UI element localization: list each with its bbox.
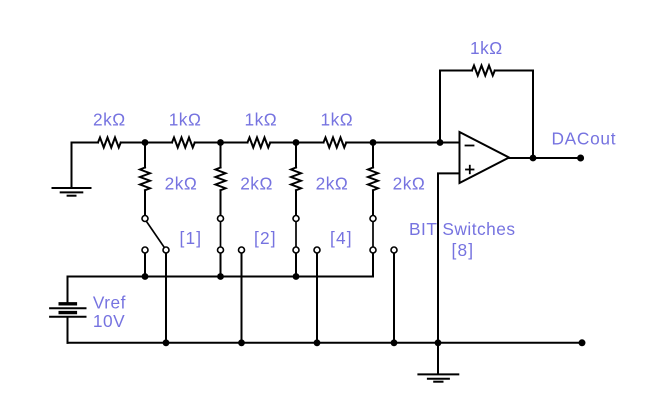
wire battery bottom lead <box>67 318 69 343</box>
node op-amp minus input <box>437 139 444 146</box>
switch SW1 blade (thrown right) <box>147 222 165 248</box>
svg-text:1kΩ: 1kΩ <box>169 110 202 130</box>
svg-text:BIT Switches: BIT Switches <box>409 219 516 239</box>
svg-text:1kΩ: 1kΩ <box>470 38 503 58</box>
node bit3 top <box>293 139 300 146</box>
wire bit4 vertical top <box>372 143 374 168</box>
wire feedback right vertical <box>532 71 534 159</box>
node vref bus bit2 <box>217 273 224 280</box>
node bit4 top <box>370 139 377 146</box>
node ground bus sw1 <box>163 339 170 346</box>
node ground bus sw4 <box>391 339 398 346</box>
switch SW3 terminal top <box>293 216 299 222</box>
wire vref bus <box>68 276 374 278</box>
svg-text:2kΩ: 2kΩ <box>93 110 126 130</box>
node ground bus opamp plus <box>435 339 442 346</box>
switch SW1 terminal top <box>142 216 148 222</box>
wire bit3 right terminal down to ground bus <box>316 253 318 343</box>
switch SW4 blade <box>372 222 374 247</box>
svg-text:[4]: [4] <box>330 228 353 248</box>
svg-text:10V: 10V <box>93 311 125 331</box>
wire op-amp plus input <box>438 173 460 374</box>
svg-text:1kΩ: 1kΩ <box>245 110 278 130</box>
resistor R2 1kOhm horizontal <box>172 138 195 148</box>
node DACout terminal <box>577 155 584 162</box>
wire rail seg <box>121 142 172 144</box>
wire feedback top left seg <box>440 70 472 72</box>
wire bit2 right terminal down to ground bus <box>241 253 243 343</box>
resistor R9 1kOhm feedback <box>472 66 495 76</box>
switch SW3 blade <box>295 222 297 247</box>
ground GND1 <box>53 188 91 196</box>
node bit1 top <box>142 139 149 146</box>
svg-text:2kΩ: 2kΩ <box>240 174 273 194</box>
node vref bus bit1 <box>142 273 149 280</box>
wire bit4 left terminal down to vref bus <box>372 253 374 276</box>
wire bit3 vertical top <box>295 143 297 168</box>
svg-text:[2]: [2] <box>254 228 277 248</box>
wire bit1 vertical top <box>144 143 146 168</box>
wire top rail segment left <box>72 142 99 144</box>
wire bit2 to switch <box>220 190 222 215</box>
resistor R5 2kOhm vertical bit1 <box>140 168 150 191</box>
wire rail seg <box>270 142 323 144</box>
svg-text:Vref: Vref <box>93 293 126 313</box>
wire bit1 to switch <box>144 190 146 215</box>
svg-text:2kΩ: 2kΩ <box>316 174 349 194</box>
wire bit1 right terminal down to ground bus <box>165 253 167 343</box>
resistor R1 2kOhm horizontal <box>98 138 121 148</box>
wire top-left vertical to ground <box>71 143 73 188</box>
svg-text:DACout: DACout <box>552 129 617 149</box>
switch SW4 terminal right <box>391 247 397 253</box>
switch SW2 terminal right <box>239 247 245 253</box>
wire bit2 vertical top <box>220 143 222 168</box>
switch SW2 blade <box>220 222 222 247</box>
node output junction <box>530 155 537 162</box>
wire rail seg <box>195 142 248 144</box>
svg-text:[8]: [8] <box>452 240 475 260</box>
switch SW3 terminal left <box>293 247 299 253</box>
switch SW1 terminal left <box>142 247 148 253</box>
node ground bus sw3 <box>314 339 321 346</box>
ground GND2 <box>418 374 458 381</box>
svg-text:[1]: [1] <box>180 228 203 248</box>
wire bit1 left terminal down to vref bus <box>144 253 146 276</box>
wire bit3 left terminal down to vref bus <box>295 253 297 276</box>
switch SW2 terminal top <box>218 216 224 222</box>
switch SW4 terminal left <box>370 247 376 253</box>
switch SW4 terminal top <box>370 216 376 222</box>
resistor R3 1kOhm horizontal <box>248 138 271 148</box>
wire ground bus <box>68 342 583 344</box>
resistor R8 2kOhm vertical bit4 <box>368 168 378 191</box>
wire feedback top right seg <box>495 70 533 72</box>
op-amp U1 <box>460 132 510 183</box>
battery Vref plates <box>50 304 85 317</box>
svg-text:1kΩ: 1kΩ <box>321 110 354 130</box>
node vref bus bit3 <box>293 273 300 280</box>
resistor R7 2kOhm vertical bit3 <box>291 168 301 191</box>
wire bit2 left terminal down to vref bus <box>220 253 222 276</box>
resistor R6 2kOhm vertical bit2 <box>216 168 226 191</box>
switch SW3 terminal right <box>314 247 320 253</box>
svg-text:2kΩ: 2kΩ <box>165 174 198 194</box>
wire bit4 to switch <box>372 190 374 215</box>
resistor R4 1kOhm horizontal <box>324 138 347 148</box>
wire rail seg to op-amp <box>346 142 459 144</box>
wire bit3 to switch <box>295 190 297 215</box>
node bit2 top <box>217 139 224 146</box>
node ground bus sw2 <box>238 339 245 346</box>
wire op-amp output <box>509 157 581 159</box>
node ground bus right terminal <box>579 339 586 346</box>
svg-text:2kΩ: 2kΩ <box>393 174 426 194</box>
switch SW1 terminal right <box>163 247 169 253</box>
wire bit4 right terminal down to ground bus <box>393 253 395 343</box>
switch SW2 terminal left <box>218 247 224 253</box>
wire feedback left vertical <box>439 71 441 143</box>
wire battery top lead <box>67 277 69 303</box>
